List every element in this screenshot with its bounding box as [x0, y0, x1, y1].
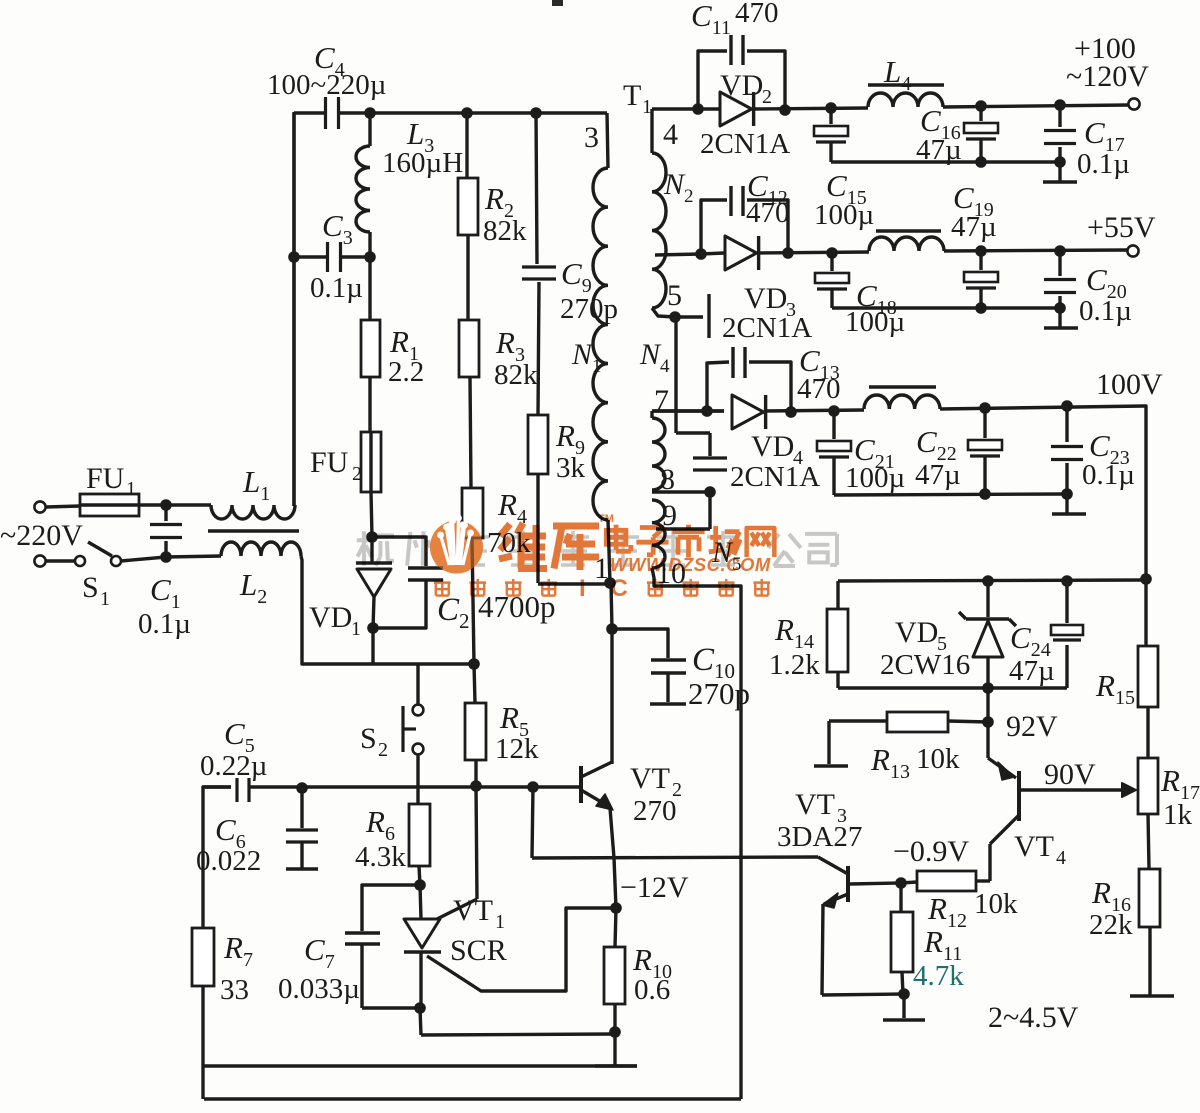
terminal input top — [34, 501, 45, 512]
node row3 b — [785, 406, 797, 418]
svg-text:VD: VD — [751, 430, 794, 463]
resistor R13 — [814, 712, 988, 783]
wire pin7 — [652, 409, 724, 412]
resistor R15 — [1095, 579, 1158, 758]
node row2 e — [1054, 245, 1066, 257]
svg-text:92V: 92V — [1006, 710, 1058, 743]
pin 3 — [584, 121, 599, 154]
node reg d — [982, 682, 994, 694]
svg-text:I: I — [579, 575, 586, 602]
core L1L2 — [208, 529, 299, 532]
svg-text:~120V: ~120V — [1066, 60, 1149, 93]
node row2 b — [782, 247, 794, 259]
switch S2 — [360, 705, 423, 761]
inductor L1 — [166, 464, 295, 519]
node row3 e — [1061, 400, 1073, 412]
svg-text:VT: VT — [453, 894, 493, 927]
wire VT1 gate bottom — [427, 908, 616, 991]
capacitor C2 — [372, 537, 556, 633]
switch S1 — [46, 542, 166, 610]
node rail1 b — [1054, 156, 1066, 168]
svg-text:−0.9V: −0.9V — [893, 835, 969, 868]
node C3 right — [364, 251, 376, 263]
potentiometer R17 — [1138, 758, 1200, 869]
snubber C12 — [701, 168, 790, 254]
resistor R2 — [458, 113, 527, 320]
node base2 — [527, 781, 539, 793]
node VD1 top — [366, 531, 378, 543]
label -0.9V — [893, 835, 969, 868]
node R10 bottom — [609, 1026, 621, 1038]
wire L2 down — [301, 556, 373, 664]
diode VD3 — [722, 236, 812, 344]
node rail2 b — [1054, 302, 1066, 314]
node R2 top — [461, 107, 473, 119]
diode VD4 — [730, 395, 820, 493]
svg-text:1.2k: 1.2k — [769, 649, 820, 681]
svg-text:3DA27: 3DA27 — [777, 821, 862, 853]
capacitor C4 — [267, 40, 386, 129]
wire C5 left — [203, 787, 231, 802]
svg-text:0.22µ: 0.22µ — [200, 750, 267, 782]
capacitor C15 — [814, 108, 874, 231]
wire 92V node — [986, 688, 989, 722]
node row1 d — [975, 100, 987, 112]
svg-text:33: 33 — [220, 974, 249, 1006]
fuse FU2 — [310, 432, 381, 492]
svg-text:100V: 100V — [1096, 368, 1163, 401]
transistor VT4 — [988, 722, 1066, 869]
wire pin5 down — [676, 317, 710, 456]
wire VT3 base — [850, 883, 901, 884]
svg-text:SCR: SCR — [450, 934, 507, 967]
svg-text:4: 4 — [663, 118, 678, 151]
capacitor C3 — [294, 208, 370, 304]
capacitor C23 — [1051, 406, 1135, 494]
svg-text:VT: VT — [795, 788, 835, 821]
svg-text:WWW.DZSC.COM: WWW.DZSC.COM — [610, 554, 771, 575]
svg-text:4: 4 — [1056, 847, 1066, 869]
node reg a — [982, 575, 994, 587]
svg-text:100µ: 100µ — [845, 462, 905, 494]
wire 100V down — [1144, 406, 1146, 579]
resistor R3 — [459, 320, 538, 488]
svg-text:C: C — [611, 575, 628, 602]
rail 92V top — [838, 580, 1146, 581]
label 92V — [1006, 710, 1058, 743]
svg-text:47µ: 47µ — [951, 211, 997, 243]
wire pin5 stub — [675, 294, 709, 338]
svg-text:0.1µ: 0.1µ — [1082, 459, 1135, 491]
svg-text:270p: 270p — [688, 676, 750, 711]
label C19 — [951, 180, 997, 243]
svg-text:1: 1 — [495, 911, 505, 933]
watermark logo overlay — [430, 515, 483, 574]
node VT2 coll — [606, 623, 618, 635]
node N1 bottom — [604, 577, 616, 589]
resistor R9 — [528, 415, 586, 583]
svg-text:100µ: 100µ — [814, 199, 874, 231]
capacitor C17 — [1044, 105, 1130, 180]
node row1 b — [779, 104, 791, 116]
capacitor C22 — [968, 408, 1002, 494]
svg-text:VD: VD — [720, 69, 763, 102]
wire VT2 base rail — [202, 785, 581, 788]
node rail3 b — [1061, 488, 1073, 500]
wire VD1 to L2 return — [371, 628, 374, 665]
inductor row2 — [869, 231, 944, 251]
node row1 a — [692, 103, 704, 115]
wire gate rail2 — [421, 1034, 615, 1035]
transformer T1 label — [623, 79, 652, 118]
svg-text:0.6: 0.6 — [634, 974, 670, 1006]
node C6 top — [296, 782, 308, 794]
capacitor C16 — [916, 103, 998, 166]
node R11 bottom — [898, 988, 910, 1000]
svg-text:47µ: 47µ — [915, 459, 961, 491]
svg-text:VD: VD — [309, 601, 352, 634]
resistor R7 — [192, 802, 253, 1099]
wire left rail — [292, 112, 295, 506]
ground VT3 — [883, 994, 925, 1020]
node row3 a — [701, 405, 713, 417]
wire row2 — [655, 253, 724, 255]
rail row3 — [834, 494, 1067, 495]
wire VT2 base to VT3 — [532, 787, 818, 858]
capacitor C10 — [612, 629, 750, 711]
resistor R14 — [769, 581, 848, 688]
node reg c — [1140, 573, 1152, 585]
svg-text:2CN1A: 2CN1A — [722, 312, 812, 344]
node reg b — [1061, 575, 1073, 587]
pin 1 — [594, 552, 609, 585]
winding N1 — [571, 113, 610, 583]
label -12V — [620, 871, 689, 904]
node rail1 a — [975, 156, 987, 168]
inductor L3 — [356, 113, 463, 258]
resistor R4 — [462, 487, 531, 664]
svg-text:2CN1A: 2CN1A — [730, 461, 820, 493]
wire pin9 — [656, 492, 710, 529]
watermark dzsc logo and text — [357, 513, 837, 602]
node row3 c — [828, 405, 840, 417]
wire trigger rail — [373, 662, 474, 665]
capacitor C19 — [964, 251, 998, 308]
svg-text:0.1µ: 0.1µ — [1079, 295, 1132, 327]
svg-text:S: S — [360, 722, 377, 755]
wire top rail — [294, 111, 607, 114]
node C3 left — [288, 251, 300, 263]
resistor R12 — [901, 871, 1018, 932]
svg-text:1k: 1k — [1163, 799, 1193, 831]
svg-text:470: 470 — [746, 197, 790, 229]
node rail2 a — [975, 302, 987, 314]
svg-text:FU: FU — [86, 462, 125, 495]
capacitor pin5-pin8 — [693, 458, 727, 498]
svg-text:470: 470 — [735, 0, 779, 29]
svg-text:5: 5 — [667, 279, 682, 312]
resistor R6 — [355, 804, 430, 885]
svg-text:2CN1A: 2CN1A — [700, 128, 790, 160]
svg-text:4.7k: 4.7k — [913, 960, 964, 992]
wire C7 bottom — [362, 1006, 420, 1009]
node SCR cathode — [414, 1002, 426, 1014]
node row1 c — [825, 102, 837, 114]
ground R16 — [1130, 994, 1174, 998]
rail bottom most — [204, 1097, 741, 1100]
wire S2 drop — [416, 664, 419, 704]
capacitor C18 — [815, 253, 905, 338]
wire SCR to rail — [420, 1008, 421, 1035]
svg-text:82k: 82k — [494, 359, 538, 391]
svg-text:VT: VT — [1014, 830, 1054, 863]
node row2 c — [826, 247, 838, 259]
inductor L4 — [868, 54, 944, 107]
transistor VT2 — [581, 762, 682, 827]
capacitor C20 — [1044, 251, 1132, 327]
snubber C13 — [707, 343, 841, 412]
svg-text:S: S — [82, 571, 99, 604]
winding N5 (9-10) — [652, 500, 742, 575]
svg-text:100µ: 100µ — [845, 306, 905, 338]
node VT3 base — [895, 877, 907, 889]
wire VT4 base to R17 — [1019, 758, 1136, 797]
wire S1 to L2 — [166, 556, 221, 557]
capacitor C7 — [345, 885, 420, 1008]
label C7 — [278, 932, 360, 1005]
node pin5 — [669, 311, 681, 323]
svg-text:3: 3 — [584, 121, 599, 154]
wire pin10 — [652, 568, 741, 1099]
node row1 e — [1054, 99, 1066, 111]
node C4-L3 — [364, 107, 376, 119]
resistor R11 — [891, 883, 964, 994]
resistor R1 — [361, 257, 424, 432]
svg-text:90V: 90V — [1044, 758, 1096, 791]
winding N4 — [639, 338, 670, 490]
svg-text:160µH: 160µH — [382, 147, 463, 179]
wire VT2 emitter — [610, 808, 616, 908]
node row2 d — [975, 245, 987, 257]
wire row1 — [652, 107, 719, 110]
wire row2 after coil — [944, 250, 1127, 251]
svg-text:82k: 82k — [483, 215, 527, 247]
svg-text:2: 2 — [352, 463, 362, 485]
wire row2 mid — [757, 252, 869, 253]
svg-text:1: 1 — [126, 478, 136, 500]
wire row3 — [652, 409, 724, 412]
capacitor C5 — [200, 716, 267, 802]
resistor R16 — [1089, 869, 1160, 995]
capacitor C6 — [196, 788, 318, 877]
wire VT1 gate top — [437, 786, 477, 919]
svg-text:2: 2 — [378, 739, 388, 761]
svg-text:VT: VT — [630, 762, 670, 795]
resistor R5 — [465, 664, 539, 786]
svg-text:0.033µ: 0.033µ — [278, 973, 360, 1005]
wire FU2 to VD1 — [371, 492, 372, 537]
node emitter — [610, 902, 622, 914]
rail row1 — [831, 160, 1060, 163]
ground row3 — [1052, 494, 1086, 514]
pin 5 — [667, 279, 682, 312]
svg-text:10k: 10k — [974, 888, 1018, 920]
pin 4 — [663, 118, 678, 151]
resistor R10 — [604, 908, 672, 1032]
artifact top edge — [552, 0, 563, 6]
svg-text:4700p: 4700p — [478, 589, 556, 624]
svg-text:VD: VD — [744, 282, 787, 315]
inductor row3 — [864, 387, 940, 409]
zener VD5 — [880, 581, 1016, 688]
node SCR anode — [414, 879, 426, 891]
terminal input bottom — [34, 555, 45, 566]
diode VD2 — [700, 69, 790, 160]
svg-text:270p: 270p — [560, 293, 618, 325]
node row2 a — [695, 248, 707, 260]
winding N2 — [652, 109, 694, 317]
wire VT3 emitter — [822, 904, 905, 995]
capacitor C21 — [817, 411, 905, 495]
wire pin8 — [652, 490, 710, 493]
ground R10 — [595, 1032, 637, 1066]
terminal +55V — [1087, 211, 1156, 257]
capacitor C9 — [522, 113, 618, 415]
pin 8 — [660, 463, 675, 496]
svg-text:100~220µ: 100~220µ — [267, 69, 386, 101]
svg-text:0.1µ: 0.1µ — [138, 608, 191, 640]
node 92V — [982, 716, 994, 728]
capacitor C24 — [1009, 581, 1083, 688]
svg-text:+55V: +55V — [1087, 211, 1156, 244]
svg-text:2: 2 — [762, 86, 772, 108]
svg-text:1: 1 — [351, 618, 361, 640]
capacitor C1 — [138, 505, 191, 640]
node R5 base — [470, 780, 482, 792]
svg-text:470: 470 — [797, 373, 841, 405]
transistor VT3 — [777, 788, 862, 908]
svg-text:2.2: 2.2 — [388, 356, 424, 388]
terminal +100-120V — [1066, 32, 1149, 110]
pin 10 — [656, 557, 686, 590]
svg-text:270: 270 — [633, 795, 677, 827]
wire row1 after L4 — [943, 105, 1128, 107]
svg-text:T: T — [623, 79, 641, 112]
rail reg bottom — [838, 686, 1067, 689]
wire row3 after coil — [940, 406, 1144, 409]
svg-text:0.1µ: 0.1µ — [310, 272, 363, 304]
node row3 d — [979, 402, 991, 414]
wire R9 to node1 — [538, 582, 610, 585]
svg-text:2~4.5V: 2~4.5V — [988, 1001, 1079, 1034]
svg-text:1: 1 — [100, 588, 110, 610]
node C1 bottom — [160, 551, 172, 563]
wire row1 to L4 — [753, 108, 868, 109]
pin 7 — [654, 384, 669, 417]
node C1 top — [160, 499, 172, 511]
ground row2 — [1044, 308, 1078, 328]
wire VT4 collector — [988, 844, 991, 881]
wire VT2 collector — [611, 583, 612, 764]
label 2-4.5V — [988, 1001, 1079, 1034]
wire L1 up — [292, 113, 295, 506]
node R4-R5 — [468, 658, 480, 670]
ground row1 — [1043, 162, 1077, 182]
svg-text:12k: 12k — [495, 733, 539, 765]
svg-text:3k: 3k — [556, 452, 586, 484]
wire S2 to R6 — [416, 754, 419, 804]
svg-text:2CW16: 2CW16 — [880, 649, 970, 681]
node rail3 a — [979, 488, 991, 500]
svg-text:~220V: ~220V — [0, 519, 83, 552]
svg-text:4.3k: 4.3k — [355, 841, 406, 873]
label C22 — [915, 424, 961, 491]
svg-text:VD: VD — [895, 616, 938, 649]
svg-text:TM: TM — [598, 513, 614, 525]
svg-text:FU: FU — [310, 446, 349, 479]
svg-text:22k: 22k — [1089, 909, 1133, 941]
rail row2 — [832, 306, 1060, 309]
svg-text:0.022: 0.022 — [196, 845, 261, 877]
diode VD1 — [309, 537, 392, 640]
snubber C11 — [691, 0, 785, 109]
pin 9 — [662, 499, 677, 532]
label 100V — [1096, 368, 1163, 401]
node C9 top — [530, 107, 542, 119]
label ~220V — [0, 519, 83, 552]
rail bottom left — [203, 1064, 637, 1067]
node VD1 bottom — [367, 622, 379, 634]
fuse FU1 — [46, 462, 166, 516]
thyristor VT1 — [404, 885, 507, 1008]
wire row3 mid — [764, 410, 864, 411]
svg-text:0.1µ: 0.1µ — [1077, 148, 1130, 180]
inductor L2 — [221, 542, 301, 608]
svg-text:47µ: 47µ — [1009, 655, 1055, 687]
svg-text:10k: 10k — [916, 743, 960, 775]
svg-text:−12V: −12V — [620, 871, 689, 904]
